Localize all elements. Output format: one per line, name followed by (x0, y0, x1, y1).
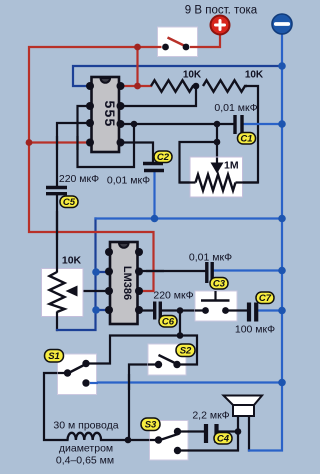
svg-text:2,2 мкФ: 2,2 мкФ (192, 410, 229, 422)
svg-text:10K: 10K (245, 70, 264, 81)
svg-text:LM386: LM386 (121, 266, 133, 300)
svg-text:C4: C4 (217, 434, 230, 445)
svg-text:C7: C7 (259, 293, 272, 304)
svg-text:10K: 10K (183, 70, 202, 81)
svg-text:S1: S1 (48, 351, 60, 362)
svg-text:диаметром: диаметром (59, 443, 113, 455)
svg-text:0,01 мкФ: 0,01 мкФ (214, 102, 257, 114)
svg-text:C6: C6 (162, 317, 175, 328)
svg-text:C3: C3 (213, 279, 226, 290)
svg-text:1M: 1M (224, 160, 239, 172)
svg-text:220 мкФ: 220 мкФ (153, 290, 193, 302)
svg-text:C1: C1 (240, 134, 252, 145)
svg-text:30 м провода: 30 м провода (53, 420, 118, 432)
svg-text:0,4–0,65 мм: 0,4–0,65 мм (56, 455, 114, 467)
svg-text:100 мкФ: 100 мкФ (235, 324, 275, 336)
svg-text:S3: S3 (145, 420, 157, 431)
svg-text:0,01 мкФ: 0,01 мкФ (189, 252, 232, 264)
svg-text:555: 555 (102, 101, 118, 128)
svg-text:220 мкФ: 220 мкФ (59, 173, 99, 185)
svg-text:C2: C2 (157, 152, 170, 163)
svg-text:0,01 мкФ: 0,01 мкФ (107, 175, 150, 187)
svg-text:9 В пост. тока: 9 В пост. тока (185, 5, 258, 17)
svg-text:10K: 10K (62, 255, 82, 267)
svg-text:C5: C5 (63, 197, 76, 208)
svg-text:S2: S2 (180, 346, 192, 357)
